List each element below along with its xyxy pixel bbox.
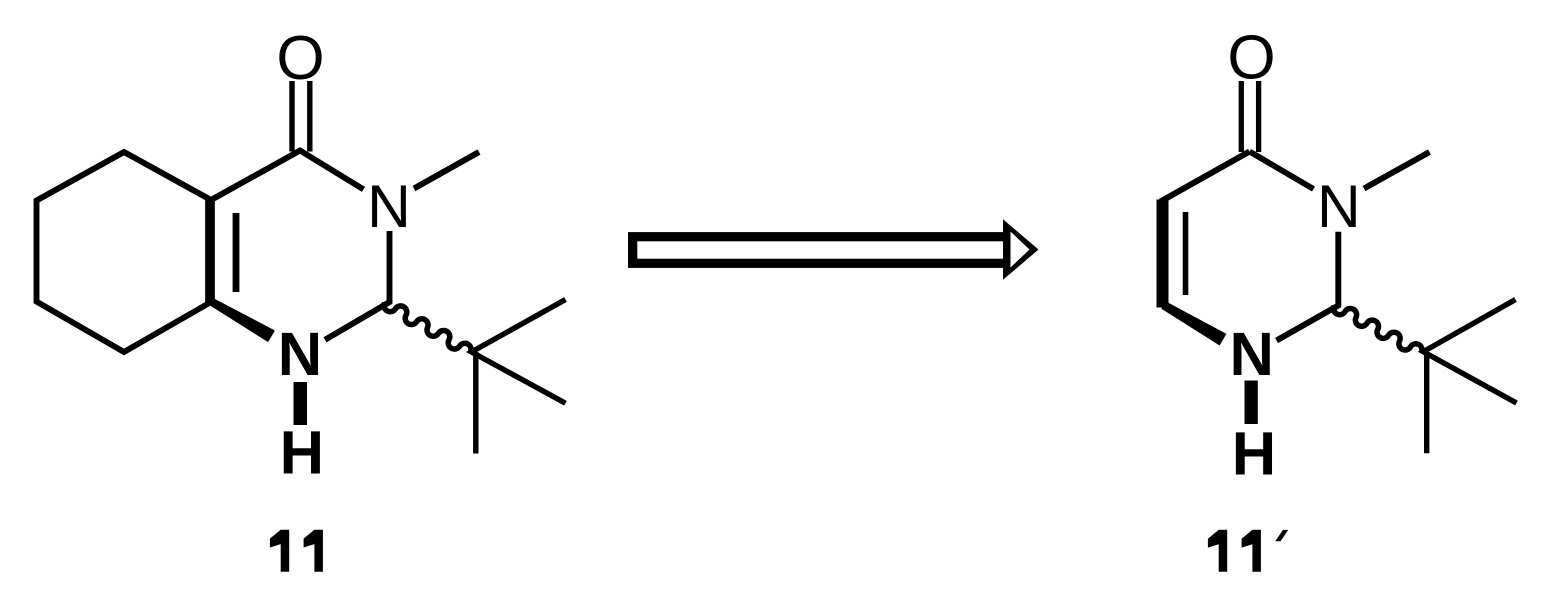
bonds N3-C2 and C2-N1 xyxy=(325,231,390,340)
svg-text:H: H xyxy=(280,419,324,488)
svg-text:N: N xyxy=(1229,320,1273,389)
svg-text:N: N xyxy=(278,320,322,389)
bonds N3-C2 and C2-N1 xyxy=(1277,232,1339,341)
tert-butyl upper and lower methyl bonds xyxy=(1423,300,1516,404)
wavy stereo bond C2-C(CH3)3 xyxy=(384,303,471,352)
bond C5-C6 (bold outer line of double bond) xyxy=(1157,200,1169,308)
svg-text:H: H xyxy=(1232,420,1276,489)
arrow shaft outline (black) xyxy=(628,232,1010,268)
svg-text:O: O xyxy=(276,24,324,93)
compound label 11 digit 1 xyxy=(270,530,289,572)
cyclohexane ring bonds C4a-C5-C6-C7-C8-C8a xyxy=(37,152,212,352)
bond C4-C5 xyxy=(1161,152,1250,202)
arrow head interior (white) xyxy=(1011,232,1030,268)
bonds C4a-C4 and C4-N3 xyxy=(211,151,364,201)
compound label 11 digit 2 xyxy=(304,530,323,572)
compound label 11' digit 2 xyxy=(1242,530,1261,572)
tert-butyl vertical methyl bond xyxy=(1424,352,1429,453)
N1-H bond bar xyxy=(1245,381,1258,425)
arrow head outline (black) xyxy=(1003,219,1039,279)
C4=O double bond line left xyxy=(289,81,294,152)
C4=O double bond line right xyxy=(1256,81,1261,152)
inner line of C4a=C8a double bond xyxy=(233,213,240,292)
svg-text:O: O xyxy=(1227,24,1275,93)
compound label 11' digit 1 xyxy=(1208,530,1227,572)
tert-butyl vertical methyl bond xyxy=(473,352,478,454)
bold wedge bond C8a-N1 xyxy=(210,299,275,343)
N3-CH3 methyl bond xyxy=(1364,152,1430,189)
bond C4-N3 xyxy=(1250,152,1314,190)
C4=O double bond line right xyxy=(307,81,312,152)
svg-text:N: N xyxy=(367,172,411,240)
svg-text:N: N xyxy=(1317,172,1361,240)
compound label 11' prime mark xyxy=(1275,530,1288,541)
arrow shaft interior (white) xyxy=(637,241,1003,258)
ring-fusion bond C4a-C8a (bold) xyxy=(205,198,215,305)
N3-CH3 methyl bond xyxy=(414,152,479,189)
N1-H bond bar xyxy=(294,382,308,425)
bold wedge bond C6-N1 xyxy=(1161,301,1226,345)
tert-butyl upper and lower methyl bonds xyxy=(472,300,566,404)
C4=O double bond line left xyxy=(1239,81,1244,152)
wavy stereo bond C2-C(CH3)3 xyxy=(1333,306,1422,353)
inner line of C5=C6 double bond xyxy=(1183,212,1189,295)
